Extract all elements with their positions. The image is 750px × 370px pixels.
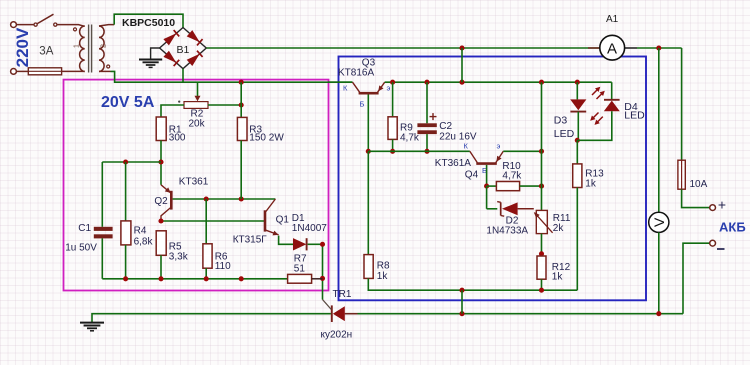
label 4,7k bbox=[400, 132, 420, 143]
resistor R5 bbox=[156, 231, 166, 256]
label R12 bbox=[552, 262, 571, 273]
label 10A bbox=[690, 179, 708, 190]
svg-text:150 2W: 150 2W bbox=[249, 133, 284, 144]
node bbox=[204, 196, 209, 201]
svg-text:LED: LED bbox=[554, 128, 575, 140]
fuse F2 10A bbox=[678, 160, 685, 189]
label 220V bbox=[13, 27, 32, 67]
transistor Q1 body bbox=[264, 210, 267, 231]
transistor Q2 body bbox=[170, 191, 173, 210]
label 51 bbox=[294, 263, 306, 274]
Q2 emitter bbox=[161, 185, 171, 193]
bridge B1 outline bbox=[160, 28, 207, 69]
wire bbox=[576, 188, 578, 291]
svg-text:Q2: Q2 bbox=[154, 196, 168, 207]
terminal - battery bbox=[710, 240, 716, 246]
resistor R9 bbox=[388, 117, 397, 140]
inner top rail bbox=[385, 81, 612, 83]
label 3,3k bbox=[169, 251, 189, 262]
Q4 emitter bbox=[496, 151, 504, 162]
transistor Q4 body bbox=[476, 162, 497, 165]
node bbox=[575, 138, 580, 143]
bridge diode bottom-left bbox=[163, 51, 179, 66]
label 20V 5A bbox=[101, 94, 155, 111]
capacitor C1 bbox=[94, 227, 113, 239]
svg-text:1N4007: 1N4007 bbox=[292, 223, 327, 234]
bridge diode top-left bbox=[163, 30, 179, 45]
node bbox=[204, 276, 209, 281]
wire bbox=[461, 290, 463, 314]
label 1k8 bbox=[377, 271, 389, 282]
label R4 bbox=[134, 226, 147, 237]
label Q2 bbox=[154, 196, 168, 207]
wire bbox=[487, 208, 498, 210]
wire bbox=[611, 82, 613, 99]
label 1k13 bbox=[585, 179, 597, 190]
transformer core bbox=[89, 25, 92, 73]
wire bbox=[206, 47, 600, 49]
svg-text:Q4: Q4 bbox=[465, 170, 479, 181]
wire bbox=[588, 47, 600, 49]
wire bbox=[197, 82, 199, 97]
resistor R6 bbox=[203, 244, 212, 268]
wire bbox=[125, 245, 127, 279]
svg-text:1N4733A: 1N4733A bbox=[486, 225, 528, 236]
wire bbox=[576, 140, 578, 164]
svg-text:22u 16V: 22u 16V bbox=[439, 131, 477, 142]
svg-text:V: V bbox=[651, 217, 667, 227]
transformer primary phase dot bbox=[74, 28, 77, 31]
wire bbox=[368, 278, 577, 290]
wire bbox=[99, 70, 111, 72]
svg-text:10A: 10A bbox=[690, 179, 708, 190]
wire bbox=[240, 82, 242, 117]
label 20k bbox=[189, 118, 206, 129]
thyristor gate lead bbox=[323, 300, 332, 310]
wire bbox=[503, 150, 541, 152]
bridge diode bottom-right bbox=[187, 51, 203, 66]
resistor R1 bbox=[156, 117, 166, 141]
potentiometer R11 bbox=[536, 210, 547, 233]
label 1k12 bbox=[552, 272, 564, 283]
Q1 emitter bbox=[266, 230, 279, 235]
wire bbox=[208, 104, 241, 106]
svg-text:4,7k: 4,7k bbox=[400, 132, 420, 143]
svg-text:KT816A: KT816A bbox=[338, 68, 374, 79]
wire bbox=[541, 234, 543, 256]
label D3 bbox=[554, 114, 568, 126]
wire bbox=[279, 236, 293, 245]
svg-text:300: 300 bbox=[169, 133, 186, 144]
node bbox=[539, 80, 544, 85]
wire bbox=[62, 70, 85, 72]
svg-text:2k: 2k bbox=[553, 223, 565, 234]
wire bbox=[16, 70, 28, 72]
node bbox=[158, 276, 163, 281]
node bbox=[320, 242, 325, 247]
svg-text:20V 5A: 20V 5A bbox=[101, 94, 155, 111]
label LED4 bbox=[624, 110, 645, 122]
node bbox=[390, 149, 395, 154]
svg-text:АКБ: АКБ bbox=[719, 220, 746, 235]
svg-text:1k: 1k bbox=[585, 179, 597, 190]
LED arrows up bbox=[592, 87, 605, 99]
wire bbox=[151, 48, 160, 59]
wire bbox=[308, 243, 323, 245]
wire bbox=[160, 141, 162, 185]
label 110 bbox=[215, 261, 231, 272]
resistor R12 bbox=[537, 256, 546, 279]
node bbox=[123, 159, 128, 164]
wire bbox=[240, 141, 242, 200]
zener D2 bbox=[497, 202, 517, 217]
label R8 bbox=[377, 261, 390, 272]
node bbox=[424, 80, 429, 85]
pin label К bbox=[343, 84, 348, 93]
label Q3 bbox=[362, 58, 376, 69]
svg-text:B1: B1 bbox=[177, 44, 190, 56]
wire bbox=[205, 268, 207, 279]
label 6,8k bbox=[134, 236, 154, 247]
label АКБ bbox=[719, 220, 746, 235]
svg-text:TR1: TR1 bbox=[333, 289, 352, 300]
wire bbox=[111, 71, 353, 82]
wire bbox=[205, 199, 207, 244]
label + bbox=[718, 197, 726, 213]
wiper end dot bbox=[178, 101, 180, 103]
node bbox=[366, 149, 371, 154]
label 4,7k2 bbox=[502, 171, 522, 182]
svg-text:3,3k: 3,3k bbox=[169, 251, 189, 262]
node bbox=[158, 159, 163, 164]
switch S1 bbox=[34, 14, 57, 26]
collector row wire bbox=[161, 220, 264, 222]
svg-text:э: э bbox=[387, 84, 391, 93]
winding label 2 bbox=[100, 44, 107, 48]
node bbox=[390, 80, 395, 85]
label R1 bbox=[169, 124, 182, 135]
label R13 bbox=[585, 168, 604, 179]
terminal + battery bbox=[710, 205, 716, 211]
node bbox=[539, 149, 544, 154]
Q1 collector bbox=[266, 199, 276, 212]
label R9 bbox=[400, 122, 413, 133]
svg-text:6,8k: 6,8k bbox=[134, 236, 154, 247]
wire bbox=[160, 255, 162, 278]
wire bbox=[682, 189, 710, 207]
wire bbox=[486, 186, 488, 209]
transformer secondary phase dot bbox=[107, 65, 110, 68]
label 1u 50V bbox=[65, 242, 97, 253]
node bbox=[239, 80, 244, 85]
svg-text:R11: R11 bbox=[553, 213, 571, 224]
svg-text:D3: D3 bbox=[554, 114, 568, 126]
node bbox=[239, 102, 244, 107]
label R10 bbox=[502, 161, 521, 172]
svg-text:1k: 1k bbox=[552, 272, 564, 283]
wire bbox=[392, 139, 394, 151]
label KT361A bbox=[435, 158, 471, 169]
node bbox=[459, 80, 464, 85]
thyristor gate wire bbox=[322, 244, 324, 299]
svg-text:1: 1 bbox=[73, 44, 80, 48]
ground near bridge bbox=[139, 60, 162, 68]
label KT361 bbox=[179, 177, 209, 188]
terminal 220V top bbox=[11, 22, 17, 28]
svg-text:KT361: KT361 bbox=[179, 177, 209, 188]
R11 wiper bbox=[534, 212, 553, 233]
label 22u 16V bbox=[439, 131, 477, 142]
svg-text:К: К bbox=[464, 142, 469, 151]
wire bbox=[99, 25, 114, 26]
wire bbox=[16, 24, 34, 26]
label 1N4007 bbox=[292, 223, 327, 234]
node bbox=[459, 311, 464, 316]
svg-text:1u 50V: 1u 50V bbox=[65, 242, 97, 253]
svg-text:ку202н: ку202н bbox=[321, 330, 353, 341]
voltmeter bbox=[649, 212, 669, 232]
node bbox=[239, 196, 244, 201]
svg-text:A: A bbox=[607, 40, 617, 57]
wire bbox=[102, 161, 161, 163]
resistor R13 bbox=[573, 164, 582, 188]
label R3 bbox=[249, 124, 262, 135]
potentiometer R2 bbox=[184, 102, 208, 109]
Q3 collector bbox=[353, 82, 360, 92]
svg-text:R4: R4 bbox=[134, 226, 147, 237]
svg-text:KT361A: KT361A bbox=[435, 158, 471, 169]
wire bbox=[114, 14, 183, 27]
pin label э bbox=[387, 84, 391, 93]
svg-text:+: + bbox=[718, 197, 726, 213]
resistor R7 bbox=[288, 274, 312, 283]
ammeter A1 bbox=[600, 35, 625, 60]
label R2 bbox=[191, 109, 204, 120]
wire bbox=[368, 150, 470, 152]
pin label К2 bbox=[464, 142, 469, 151]
wire bbox=[426, 134, 428, 151]
svg-text:э: э bbox=[497, 142, 501, 151]
wire bbox=[487, 185, 497, 187]
wire bbox=[101, 162, 103, 227]
label A1 bbox=[606, 14, 619, 25]
node bbox=[656, 311, 661, 316]
terminal 220V bottom bbox=[11, 69, 17, 75]
resistor R3 bbox=[237, 117, 247, 140]
LED D4 bbox=[604, 100, 620, 111]
svg-text:KBPC5010: KBPC5010 bbox=[122, 17, 175, 29]
magenta group box (20V 5A section) bbox=[64, 80, 329, 291]
svg-text:R8: R8 bbox=[377, 261, 390, 272]
svg-text:LED: LED bbox=[624, 110, 645, 122]
label KBPC5010 bbox=[122, 17, 175, 29]
label 1N4733A bbox=[486, 225, 528, 236]
label 3A bbox=[39, 46, 53, 58]
node bbox=[484, 184, 489, 189]
wire bbox=[625, 47, 638, 49]
node bbox=[539, 184, 544, 189]
wire bbox=[329, 81, 353, 83]
pin label Б bbox=[360, 100, 365, 109]
wire bbox=[520, 185, 542, 187]
fuse F1 3A bbox=[28, 68, 61, 75]
wire bbox=[541, 186, 543, 210]
label 150 2W bbox=[249, 133, 284, 144]
wire bbox=[658, 232, 660, 313]
wire bbox=[345, 313, 358, 315]
bridge diode top-right bbox=[187, 30, 203, 45]
wire bbox=[182, 69, 184, 83]
wire bbox=[392, 82, 394, 117]
wire bbox=[426, 82, 428, 123]
svg-text:К: К bbox=[343, 84, 348, 93]
svg-text:Б: Б bbox=[360, 100, 365, 109]
resistor R8 bbox=[364, 255, 373, 279]
R2 wiper arrow bbox=[195, 96, 201, 102]
label TR1 bbox=[333, 289, 352, 300]
wire bbox=[367, 151, 369, 254]
label R7 bbox=[294, 254, 307, 265]
label Q1 bbox=[276, 214, 290, 225]
wire bbox=[358, 313, 684, 315]
node bbox=[158, 218, 163, 223]
Q3 emitter bbox=[378, 82, 385, 92]
wire bbox=[681, 48, 683, 160]
wire bbox=[577, 111, 612, 140]
label ку202н bbox=[321, 330, 353, 341]
node bbox=[123, 276, 128, 281]
transformer primary winding bbox=[80, 26, 85, 71]
pin label э2 bbox=[497, 142, 501, 151]
wire bbox=[461, 48, 463, 82]
wire bbox=[518, 208, 534, 210]
Q3 base wire bbox=[367, 95, 369, 152]
wire bbox=[658, 48, 660, 212]
wire bbox=[57, 25, 85, 27]
wire bbox=[125, 162, 127, 221]
label R11 bbox=[553, 213, 571, 224]
node bbox=[656, 45, 661, 50]
node bbox=[239, 276, 244, 281]
label LED3 bbox=[554, 128, 575, 140]
svg-text:51: 51 bbox=[294, 263, 306, 274]
svg-text:C2: C2 bbox=[439, 121, 452, 132]
svg-text:4,7k: 4,7k bbox=[502, 171, 522, 182]
svg-text:220V: 220V bbox=[13, 27, 32, 67]
svg-text:3A: 3A bbox=[39, 46, 53, 58]
svg-text:КТ315Г: КТ315Г bbox=[233, 235, 268, 246]
diode D1 bbox=[293, 238, 307, 250]
capacitor C2 bbox=[417, 113, 436, 134]
label 300 bbox=[169, 133, 186, 144]
label B1 bbox=[177, 44, 190, 56]
svg-text:2: 2 bbox=[100, 44, 107, 48]
label Q4 bbox=[465, 170, 479, 181]
label D2 bbox=[506, 216, 519, 227]
node bbox=[575, 80, 580, 85]
wire bbox=[312, 278, 323, 280]
transistor Q3 body bbox=[359, 92, 379, 95]
node bbox=[459, 288, 464, 293]
Q2 base wire bbox=[173, 198, 276, 200]
Q4 collector bbox=[470, 151, 478, 162]
ground bottom left bbox=[80, 323, 104, 331]
wire bbox=[541, 82, 543, 151]
wire bbox=[101, 238, 103, 278]
LED arrows down bbox=[590, 113, 603, 125]
node bbox=[459, 45, 464, 50]
svg-text:1k: 1k bbox=[377, 271, 389, 282]
label - bbox=[717, 248, 725, 250]
thyristor TR1 bbox=[332, 305, 345, 322]
Q4 base wire bbox=[486, 165, 488, 186]
transformer secondary winding bbox=[99, 26, 104, 71]
svg-text:110: 110 bbox=[215, 261, 231, 272]
wire bbox=[576, 82, 578, 99]
blue group box (control section) bbox=[339, 57, 647, 301]
svg-text:A1: A1 bbox=[606, 14, 619, 25]
wire bbox=[161, 105, 184, 117]
wire bbox=[102, 278, 287, 280]
wire bbox=[577, 112, 579, 141]
svg-text:C1: C1 bbox=[78, 223, 91, 234]
svg-text:20k: 20k bbox=[189, 118, 206, 129]
winding label 1 bbox=[73, 44, 80, 48]
label D4 bbox=[624, 101, 638, 113]
resistor R10 bbox=[496, 182, 519, 191]
node bbox=[320, 276, 325, 281]
node bbox=[424, 149, 429, 154]
wire bbox=[541, 279, 543, 290]
node bbox=[539, 251, 544, 256]
wire bbox=[541, 151, 543, 186]
node bbox=[539, 288, 544, 293]
Q2 collector bbox=[161, 208, 170, 221]
wire bbox=[637, 47, 682, 49]
label C1 bbox=[78, 223, 91, 234]
label D1 bbox=[292, 213, 305, 224]
label R6 bbox=[215, 251, 228, 262]
label KT816A bbox=[338, 68, 374, 79]
label R5 bbox=[169, 242, 182, 253]
wire bbox=[683, 243, 710, 314]
label C2 bbox=[439, 121, 452, 132]
pin label Б2 bbox=[482, 166, 487, 175]
LED D3 bbox=[570, 99, 586, 111]
wire bbox=[92, 314, 331, 322]
svg-text:Q1: Q1 bbox=[276, 214, 290, 225]
label КТ315Г bbox=[233, 235, 268, 246]
label 2k bbox=[553, 223, 565, 234]
resistor R4 bbox=[121, 221, 131, 245]
